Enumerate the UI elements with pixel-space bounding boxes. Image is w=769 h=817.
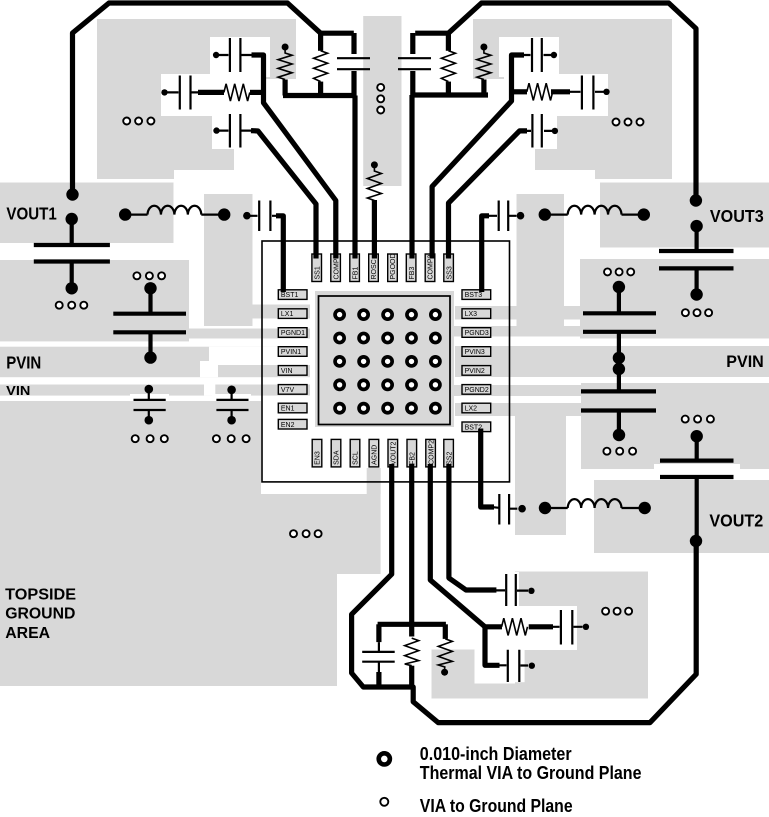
svg-text:COMP2: COMP2 xyxy=(428,440,435,465)
copper band VIN left xyxy=(0,385,310,396)
pin PVIN1 xyxy=(278,347,307,357)
capacitor FB1 xyxy=(337,58,370,69)
resistor COMP2 series xyxy=(502,618,528,635)
wire FB1 pin trace xyxy=(352,96,357,259)
resistor FB1 lower xyxy=(314,51,328,82)
wire VOUT2 loop trace xyxy=(352,464,697,723)
pin SS1 xyxy=(312,254,322,282)
copper strip right of IC lower xyxy=(515,416,566,535)
pin FB3 xyxy=(406,254,416,282)
svg-text:SDA: SDA xyxy=(334,450,341,465)
wire end junction VOUT1 xyxy=(66,188,78,200)
wire FB2 top bar xyxy=(378,622,446,627)
wire BST2 trace xyxy=(481,429,494,508)
pin BST3 xyxy=(462,290,491,300)
pin EN1 xyxy=(278,403,307,413)
wire C1 stems xyxy=(70,219,74,288)
svg-text:PVIN: PVIN xyxy=(726,353,764,371)
wire COMP1 resistor left stub xyxy=(198,90,224,95)
wire SS2 trace xyxy=(449,464,497,590)
wire COMP2 trace xyxy=(430,464,502,627)
capacitor bootstrap BST1 xyxy=(243,201,277,232)
inductor L3 xyxy=(539,206,650,221)
capacitor SS3 xyxy=(520,114,559,148)
wire FB1 resistor bottom stub xyxy=(318,82,323,96)
svg-text:GROUND: GROUND xyxy=(5,606,75,623)
wire FB2 pin trace xyxy=(409,464,414,637)
via cluster below VIN cap right xyxy=(213,435,250,442)
ground area right-mid xyxy=(580,259,769,339)
pin BST2 xyxy=(462,422,491,432)
capacitor VIN small left xyxy=(134,385,166,425)
wire COMP2 resistor right stub xyxy=(529,624,553,629)
capacitor COMP1 upper xyxy=(213,38,252,72)
svg-text:VOUT2: VOUT2 xyxy=(391,441,398,464)
svg-text:BST3: BST3 xyxy=(465,292,483,299)
capacitor VIN small right xyxy=(216,386,248,425)
copper band PGND2 xyxy=(454,385,583,396)
legend thermal via symbol xyxy=(379,753,390,764)
svg-text:COMP3: COMP3 xyxy=(428,255,435,280)
via cluster above C8 xyxy=(682,416,714,423)
svg-text:VOUT1: VOUT1 xyxy=(6,204,57,224)
capacitor COMP2 lower xyxy=(499,650,536,682)
svg-text:PVIN1: PVIN1 xyxy=(281,349,301,356)
wire C2 stems xyxy=(148,288,152,357)
via cluster top-right xyxy=(613,119,644,126)
svg-text:ROSC: ROSC xyxy=(371,259,378,279)
pin V7V xyxy=(278,385,307,395)
copper area VOUT1 xyxy=(0,183,174,244)
wire FB1 island resistor bottom stub xyxy=(283,80,288,96)
resistor FB3 lower xyxy=(441,51,455,82)
copper band PGND3 xyxy=(453,326,583,337)
copper band LX2 xyxy=(455,403,583,416)
via cluster top-left xyxy=(123,118,154,125)
wire FB1 cap bottom stub xyxy=(351,71,356,96)
wire COMP3 resistor right stub xyxy=(551,89,570,94)
ground area top-right channel3 xyxy=(473,19,672,179)
copper band PVIN right xyxy=(455,346,769,377)
wire FB2 cap top stub xyxy=(376,624,381,642)
svg-text:SS1: SS1 xyxy=(314,266,321,279)
capacitor COMP2 series xyxy=(552,610,590,645)
wire FB3 resistor bottom stub xyxy=(446,82,451,95)
copper area VOUT3 xyxy=(600,183,769,248)
wire FB3 resistor top stub xyxy=(446,33,451,51)
svg-text:PVIN3: PVIN3 xyxy=(465,349,485,356)
inductor L1 xyxy=(119,206,230,221)
capacitor PVIN2 input xyxy=(581,363,656,441)
wire BST3 trace xyxy=(482,216,489,292)
wire C8 stems xyxy=(695,436,699,540)
topside ground area bottom-left xyxy=(0,401,381,686)
capacitor VOUT1 bulk xyxy=(34,213,110,295)
ground area bottom channel2 xyxy=(475,572,648,699)
svg-text:0.010-inch Diameter: 0.010-inch Diameter xyxy=(420,744,572,764)
pin SS2 xyxy=(444,439,454,467)
svg-text:COMP1: COMP1 xyxy=(333,255,340,280)
svg-text:PGOOD: PGOOD xyxy=(390,253,397,279)
capacitor PVIN1 input xyxy=(113,282,186,364)
svg-text:SCL: SCL xyxy=(353,451,360,465)
pin PVIN2 xyxy=(462,366,491,376)
wire C6 C7 chain stems xyxy=(617,287,621,435)
pin PVIN3 xyxy=(462,347,491,357)
ground area top-left channel1 xyxy=(97,19,296,179)
pin SCL xyxy=(350,439,360,467)
pin PGND1 xyxy=(278,328,307,338)
pin LX1 xyxy=(278,309,307,319)
copper band PVIN left xyxy=(0,347,310,378)
svg-text:PGND1: PGND1 xyxy=(281,330,305,337)
ground strip top-center xyxy=(363,16,401,186)
via cluster below VIN cap left xyxy=(132,435,168,442)
pin SS3 xyxy=(444,254,454,282)
topside ground area label xyxy=(5,587,76,642)
capacitor COMP3 series xyxy=(569,76,610,110)
capacitor SS2 xyxy=(496,574,535,606)
pin LX3 xyxy=(462,309,491,319)
pin FB2 xyxy=(407,439,417,467)
wire COMP1 resistor right stub xyxy=(250,90,264,95)
pin EN2 xyxy=(278,419,307,429)
wire FB2 island resistor top stub xyxy=(443,624,448,639)
capacitor FB2 xyxy=(362,642,395,673)
wire FB3 cap top stub xyxy=(410,33,415,54)
svg-text:TOPSIDE: TOPSIDE xyxy=(5,587,76,604)
svg-text:VIN: VIN xyxy=(281,368,293,375)
via cluster top-center xyxy=(377,84,384,114)
resistor FB2 island xyxy=(438,639,452,676)
copper band LX1 xyxy=(204,305,310,319)
wire VOUT3 top trace xyxy=(415,3,696,198)
resistor ROSC xyxy=(367,161,381,200)
pin VOUT2 xyxy=(388,439,398,467)
capacitor COMP3 upper xyxy=(519,38,558,72)
pin BST1 xyxy=(278,290,307,300)
capacitor VOUT3 bulk xyxy=(659,220,734,301)
via cluster topside ground xyxy=(290,530,322,537)
svg-text:Thermal VIA to Ground Plane: Thermal VIA to Ground Plane xyxy=(420,763,642,783)
wire end junction VOUT3 xyxy=(690,194,702,206)
via cluster above C2 xyxy=(133,272,165,279)
capacitor bootstrap BST3 xyxy=(488,201,524,232)
pin COMP3 xyxy=(425,254,435,282)
legend via symbol xyxy=(380,798,388,806)
svg-text:FB2: FB2 xyxy=(410,452,417,465)
svg-text:VOUT2: VOUT2 xyxy=(709,510,763,530)
resistor COMP3 series xyxy=(527,83,553,100)
thermal via grid xyxy=(335,310,440,413)
svg-text:FB3: FB3 xyxy=(409,267,416,280)
copper strip left of IC xyxy=(204,194,253,326)
wire C5 stems xyxy=(694,226,698,294)
pin EN3 xyxy=(312,439,322,467)
wire FB3 island resistor bottom stub xyxy=(481,80,486,96)
white cutouts around VIN small caps xyxy=(130,394,251,419)
svg-text:BST1: BST1 xyxy=(281,292,299,299)
inductor L2 xyxy=(539,499,651,514)
wire FB1 resistor top stub xyxy=(318,33,323,51)
ground area left-mid xyxy=(0,260,189,341)
via cluster above C6 xyxy=(604,268,634,275)
resistor FB2 xyxy=(405,638,419,666)
wire COMP3 trace xyxy=(432,55,524,259)
ground area right PVIN2 input caps xyxy=(581,383,769,481)
wire BST1 trace xyxy=(276,216,283,292)
svg-text:AREA: AREA xyxy=(5,625,50,642)
capacitor VOUT2 bulk xyxy=(660,430,734,547)
wire COMP2 lower cap stub xyxy=(485,627,500,666)
pin COMP2 xyxy=(426,439,436,467)
via cluster channel2 ground xyxy=(602,608,632,615)
pin AGND xyxy=(369,439,379,467)
pin PGND3 xyxy=(462,328,491,338)
thermal pad xyxy=(315,291,454,427)
capacitor COMP1 series xyxy=(161,76,200,110)
svg-text:EN3: EN3 xyxy=(315,451,322,465)
resistor FB1 island xyxy=(278,44,292,80)
wire FB3 cap bottom stub xyxy=(410,71,415,95)
ground island bottom FB2 resistor xyxy=(432,650,649,699)
pin SDA xyxy=(331,439,341,467)
wire FB2 cap bottom stub xyxy=(376,672,381,687)
wire VOUT1 top trace xyxy=(73,3,354,193)
via cluster below C7 xyxy=(603,448,636,455)
wire ROSC stub xyxy=(372,200,377,259)
capacitor PVIN3 input xyxy=(583,281,656,364)
wire FB3 pin trace xyxy=(409,95,414,259)
copper band LX3 xyxy=(455,306,583,320)
svg-text:AGND: AGND xyxy=(372,445,379,465)
svg-text:PGND3: PGND3 xyxy=(465,330,489,337)
svg-text:V7V: V7V xyxy=(281,387,295,394)
capacitor FB3 xyxy=(398,58,431,69)
pin VIN xyxy=(278,366,307,376)
pin PGOOD xyxy=(388,254,398,282)
svg-text:VIN: VIN xyxy=(6,383,30,398)
pin FB1 xyxy=(350,254,360,282)
pin PGND2 xyxy=(462,385,491,395)
wire COMP3 resistor left stub xyxy=(512,89,528,94)
svg-text:PVIN2: PVIN2 xyxy=(465,368,485,375)
wire FB1 bottom bar xyxy=(283,93,356,98)
svg-text:PVIN: PVIN xyxy=(6,354,41,373)
wire FB3 bottom bar xyxy=(413,92,488,97)
IC body background xyxy=(262,241,510,482)
svg-text:BST2: BST2 xyxy=(465,424,483,431)
copper area VOUT2 xyxy=(594,480,769,553)
via cluster below C1 xyxy=(56,302,88,309)
IC pin labels xyxy=(281,253,489,464)
wire SS3 trace xyxy=(449,131,528,259)
IC outline xyxy=(262,241,510,482)
svg-text:EN1: EN1 xyxy=(281,406,295,413)
svg-text:VOUT3: VOUT3 xyxy=(710,206,764,226)
svg-text:EN2: EN2 xyxy=(281,422,295,429)
svg-text:SS3: SS3 xyxy=(446,266,453,279)
legend thermal via text xyxy=(420,744,642,783)
copper strip right of IC xyxy=(517,194,565,326)
wire FB2 resistor bottom stub xyxy=(409,666,414,687)
wire FB1 cap top stub xyxy=(351,33,356,54)
capacitor bootstrap BST2 xyxy=(493,494,526,525)
pin ROSC xyxy=(369,254,379,282)
resistor FB3 island xyxy=(477,44,491,80)
resistor COMP1 series xyxy=(224,84,250,101)
wire COMP1 trace xyxy=(252,55,336,259)
pin COMP1 xyxy=(331,254,341,282)
svg-text:LX2: LX2 xyxy=(465,406,478,413)
svg-text:FB1: FB1 xyxy=(352,267,359,280)
via cluster below C5 xyxy=(682,309,712,316)
svg-text:PGND2: PGND2 xyxy=(465,387,489,394)
svg-text:LX1: LX1 xyxy=(281,311,294,318)
copper band PGND1 xyxy=(0,329,310,339)
svg-text:LX3: LX3 xyxy=(465,311,478,318)
svg-text:SS2: SS2 xyxy=(446,452,453,465)
pin LX2 xyxy=(462,403,491,413)
capacitor SS1 xyxy=(213,114,251,148)
wire SS1 trace xyxy=(251,131,316,259)
svg-text:VIA to Ground Plane: VIA to Ground Plane xyxy=(420,796,573,816)
